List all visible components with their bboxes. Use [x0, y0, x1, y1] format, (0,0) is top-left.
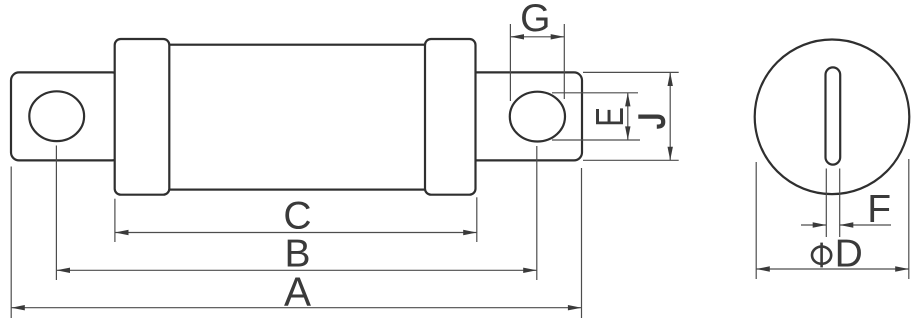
E arrowheads	[625, 93, 630, 140]
B arrowheads	[56, 268, 536, 273]
C arrowheads	[115, 230, 477, 235]
J extension line top	[583, 71, 679, 73]
B extension line left	[55, 146, 57, 281]
svg-text:A: A	[284, 269, 311, 315]
C dimension line	[115, 232, 477, 234]
B dimension line	[56, 269, 536, 271]
label J (rotated, drawn as path)	[638, 117, 663, 127]
end view circle (cap face)	[755, 40, 910, 195]
PhiD extension line left	[755, 162, 757, 279]
PhiD extension line right	[908, 159, 910, 279]
svg-text:F: F	[867, 188, 891, 231]
J extension line bottom	[583, 159, 679, 161]
F dimension tail right	[840, 224, 891, 226]
J dimension line	[669, 72, 671, 160]
G extension line right	[563, 24, 565, 99]
left end cap (ferrule)	[115, 39, 170, 195]
right end cap (ferrule)	[425, 39, 476, 195]
svg-text:C: C	[283, 194, 311, 237]
end view slot	[826, 67, 841, 164]
fuse body (barrel)	[167, 45, 427, 190]
C extension line left	[114, 199, 116, 242]
G extension line left	[509, 24, 511, 101]
F extension line left	[825, 169, 827, 238]
right tab mounting hole	[510, 92, 565, 142]
left terminal tab	[11, 72, 120, 160]
A extension line right	[581, 168, 583, 318]
A dimension line	[11, 307, 581, 309]
PhiD arrowheads	[756, 266, 909, 271]
A extension line left	[10, 167, 12, 319]
right terminal tab	[468, 72, 582, 160]
F dimension tail left	[801, 224, 826, 226]
left tab mounting hole	[29, 91, 84, 141]
B extension line right	[536, 146, 538, 280]
A arrowheads	[11, 305, 581, 310]
E extension line bottom	[552, 139, 640, 141]
PhiD dimension line	[756, 268, 909, 270]
label PhiD: Phi drawn as ellipse+stem	[812, 243, 831, 268]
C extension line right	[476, 197, 478, 242]
J arrowheads	[668, 72, 673, 160]
G dimension line	[510, 36, 564, 38]
E dimension line	[627, 93, 629, 140]
E extension line top	[552, 92, 638, 94]
G arrowheads	[510, 34, 564, 39]
svg-text:G: G	[520, 0, 550, 40]
svg-text:D: D	[835, 233, 863, 276]
F arrowheads	[813, 222, 854, 227]
F extension line right	[839, 169, 841, 238]
svg-text:E: E	[589, 107, 632, 127]
